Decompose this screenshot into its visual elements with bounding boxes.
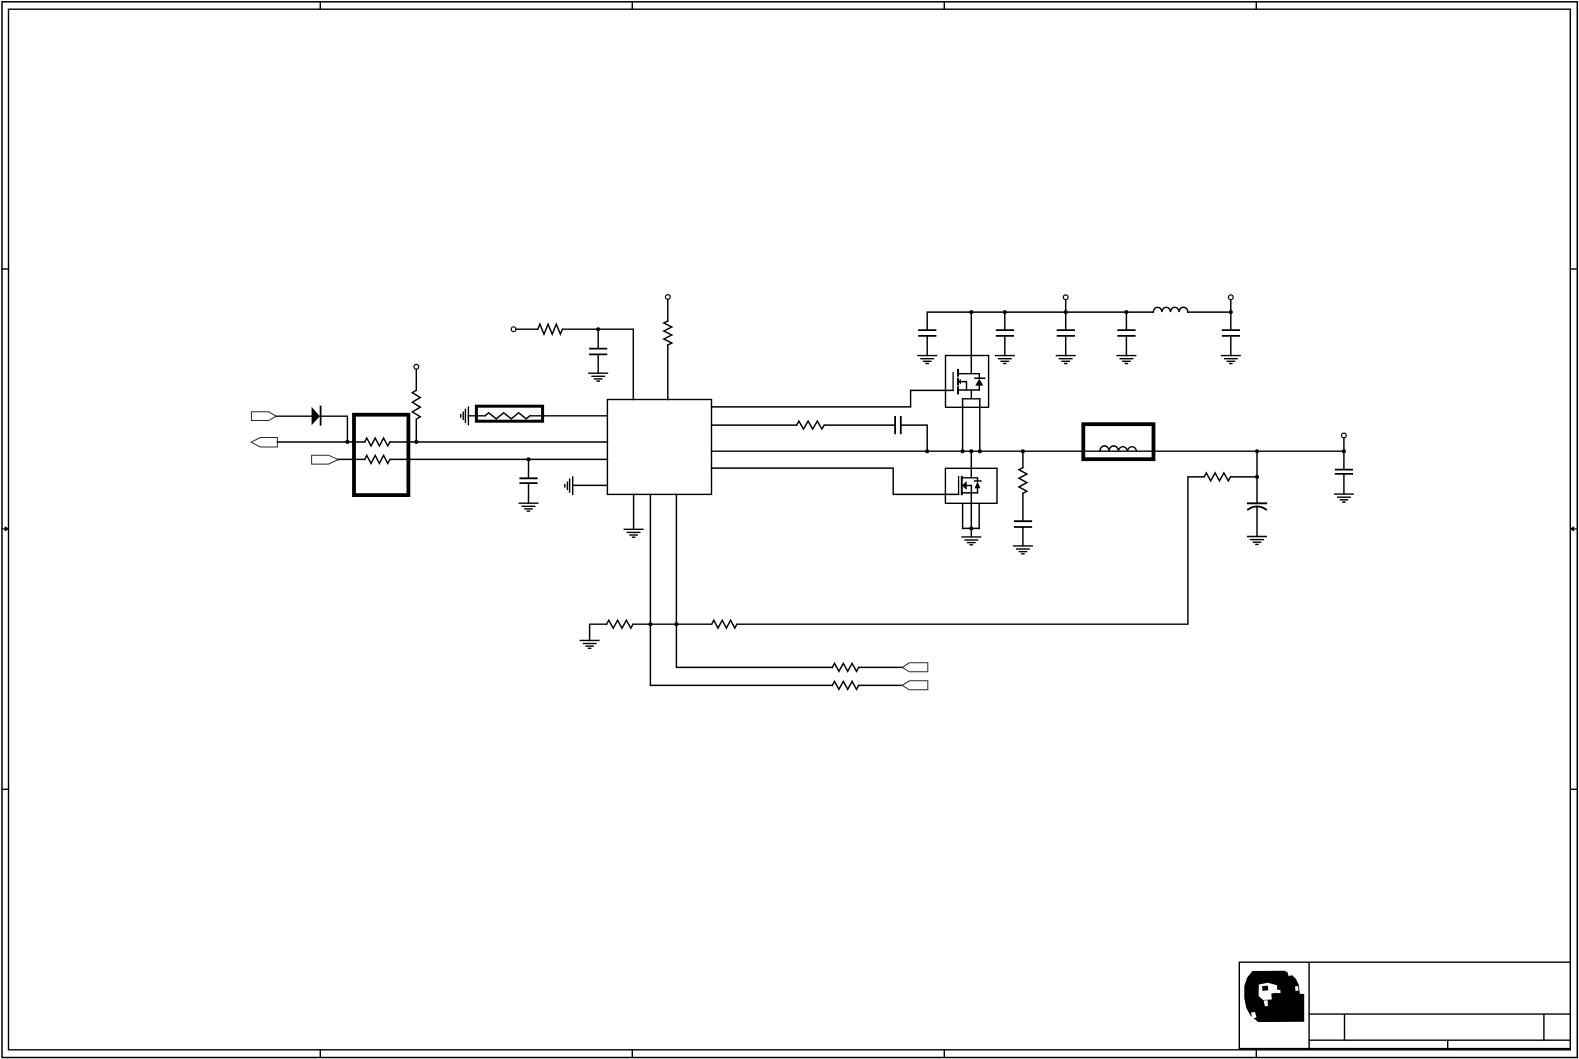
resistor R13 (divider top) xyxy=(1204,473,1230,481)
node B junction dot xyxy=(414,440,418,444)
node VOUT junction dot xyxy=(1255,449,1259,453)
wire IC pin LG to Q2 gate xyxy=(712,468,959,494)
capacitor C9 (polarized output) xyxy=(1248,503,1266,509)
junction dot output xyxy=(1342,449,1346,453)
title block outline xyxy=(1239,962,1569,1048)
node G junction dot xyxy=(1003,310,1007,314)
terminal T1 xyxy=(414,364,419,369)
wire R10 to flag J4 xyxy=(859,666,903,668)
wire R7 to C2 xyxy=(824,424,895,426)
title block logo cell divider xyxy=(1308,962,1310,1048)
ground G15 under C11 xyxy=(519,503,538,511)
wire IC pin FB down xyxy=(650,494,832,685)
wire Q2 source center xyxy=(970,493,972,529)
ground G14 xyxy=(1335,494,1354,502)
wire C11 to ground xyxy=(528,483,530,503)
wire VOUT down to divider xyxy=(1256,451,1258,477)
ground G12 xyxy=(1014,546,1033,554)
junction dot Q1 source pin 2 xyxy=(978,449,982,453)
wire G3 to IC xyxy=(573,484,608,486)
wire IC pin COMP down xyxy=(676,494,832,667)
ground G3 (rotated, at IC left) xyxy=(565,477,573,494)
wire Q1 source pin 2 to SW xyxy=(979,399,981,451)
ground G11 under Q2 xyxy=(962,537,981,545)
wire VIN rail xyxy=(927,312,1153,330)
border tick top x=320 xyxy=(319,2,321,9)
module box FB1 (thick outline) xyxy=(354,415,408,495)
wire C7 to ground xyxy=(1230,336,1232,356)
wire G2 to module R6 xyxy=(468,415,485,417)
TITLE BLOCK xyxy=(1239,962,1570,1048)
resistor R3 (vertical pull-up) xyxy=(412,390,420,419)
resistor R4 xyxy=(538,324,563,334)
node F junction dot (Q1 drain) xyxy=(969,310,973,314)
wire T5 stub xyxy=(1230,300,1232,330)
ground G5 stub xyxy=(590,624,607,640)
resistor R6 (inside module) xyxy=(485,413,530,419)
diode D1 xyxy=(312,407,321,426)
wire J3 to module box xyxy=(338,458,365,460)
wire L1 to T5 xyxy=(1188,311,1231,313)
IC U1 xyxy=(607,400,711,495)
wire C10 to ground xyxy=(1343,474,1345,494)
border tick bottom x=944 xyxy=(943,1050,945,1058)
wire C9 to ground xyxy=(1256,506,1258,536)
title block bottom cell divider x=1448 xyxy=(1447,1040,1449,1048)
wire T2 to R4 xyxy=(516,328,538,330)
node J junction dot xyxy=(1229,310,1233,314)
wire C3 to ground xyxy=(926,336,928,356)
border tick top x=944 xyxy=(943,2,945,9)
resistor R7 (boost) xyxy=(797,421,825,429)
terminal T2 xyxy=(511,327,516,332)
resistor R9 (FB upper) xyxy=(712,620,737,628)
wire T1 to R3 xyxy=(415,369,417,390)
capacitor C6 stub xyxy=(1125,312,1127,330)
resistor R11 (sense row 2) xyxy=(832,681,858,689)
SW node junction dot xyxy=(925,449,929,453)
border tick bottom x=632 xyxy=(631,1050,633,1058)
wire C6 to ground xyxy=(1125,336,1127,356)
ground G13 xyxy=(1248,537,1267,545)
INPUT RAIL (top right) xyxy=(918,295,1240,364)
inductor L2 (output) xyxy=(1100,446,1137,451)
border tick bottom x=1256 xyxy=(1255,1050,1257,1058)
capacitor C4 xyxy=(997,330,1013,336)
wire divider to C9 xyxy=(1256,477,1258,503)
company logo xyxy=(1244,971,1304,1022)
resistor R12 (snubber, vertical) xyxy=(1019,468,1027,494)
terminal T6 (VOUT) xyxy=(1342,433,1347,438)
wire C2 to SW node xyxy=(901,425,927,451)
ground G9 xyxy=(1117,356,1136,364)
module box L2 (thick outline) xyxy=(1083,424,1153,459)
junction dot Q2 source xyxy=(969,526,973,530)
connector flag J3 (pointing right) xyxy=(312,455,339,464)
capacitor C1 stub xyxy=(597,329,599,348)
wire SW rail xyxy=(712,450,1344,452)
capacitor C2 (boost, series) xyxy=(895,417,901,433)
resistor R1 (inside module, upper) xyxy=(365,438,390,446)
POWER STAGE MOSFETS xyxy=(945,312,997,545)
wire R2 to IC xyxy=(390,458,607,460)
ground G7 xyxy=(996,356,1015,364)
node D junction dot xyxy=(648,622,652,626)
LEFT INPUT SECTION xyxy=(251,364,607,495)
border center arrow left xyxy=(2,526,10,531)
capacitor C8 (snubber) xyxy=(1015,521,1031,527)
wire J2 to module box xyxy=(277,441,364,443)
wire output to C10 xyxy=(1343,451,1345,469)
capacitor C1 xyxy=(590,349,606,355)
wire IC pin BST xyxy=(712,424,797,426)
wire C8 to ground xyxy=(1022,527,1024,546)
connector flag J1 (input, pointing right) xyxy=(251,412,276,421)
wire Q1 source pin 1 to SW xyxy=(962,399,964,451)
border tick left y=269 xyxy=(2,268,9,270)
title block bottom line xyxy=(1239,1048,1570,1050)
terminal T4 xyxy=(1063,295,1068,300)
ground under C1 xyxy=(589,373,608,381)
border tick right y=789 xyxy=(1570,788,1577,790)
wire SW to Q2 drain xyxy=(970,451,972,478)
title block cell divider x=1544 xyxy=(1543,1014,1545,1040)
wire D1 to node A xyxy=(321,416,348,442)
terminal T3 xyxy=(665,295,670,300)
transistor Q2 (low side N-MOSFET) xyxy=(945,468,997,503)
GATE DRIVE AND SW SECTION xyxy=(712,390,1344,494)
capacitor C7 xyxy=(1223,330,1239,336)
wire R5 to IC top xyxy=(667,345,669,400)
border tick top x=1256 xyxy=(1255,2,1257,9)
capacitor C4 stub xyxy=(1004,312,1006,330)
title block row line y=1040 xyxy=(1309,1039,1570,1041)
border tick right y=269 xyxy=(1570,268,1577,270)
title block cell divider x=1344 xyxy=(1344,1014,1346,1040)
resistor R2 (inside module, lower) xyxy=(365,455,390,463)
resistor R5 (vertical) xyxy=(664,321,672,345)
ground G2 (rotated, left of module R6) xyxy=(461,407,469,424)
wire VIN rail to Q1 drain xyxy=(970,312,972,374)
junction dot divider xyxy=(1255,475,1259,479)
inductor L1 (input filter) xyxy=(1153,307,1188,312)
capacitor C6 xyxy=(1118,330,1134,336)
wire R13 to VOUT node xyxy=(1231,476,1257,478)
capacitor C5 xyxy=(1058,330,1074,336)
wire R1 to IC xyxy=(390,441,607,443)
IC AND LEFT PINS xyxy=(461,400,712,538)
wire R12 to C8 xyxy=(1022,493,1024,521)
ENABLE RC SECTION (top left) xyxy=(511,295,672,400)
wire SW to R12 xyxy=(1022,451,1024,467)
connector flag J2 (pointing left) xyxy=(251,438,277,448)
wire C4 to ground xyxy=(1004,336,1006,356)
transistor Q1 (high side N-MOSFET) xyxy=(946,356,989,408)
wire T4 to rail xyxy=(1065,300,1067,330)
wire C5 to ground xyxy=(1065,336,1067,356)
border tick top x=632 xyxy=(631,2,633,9)
capacitor C10 xyxy=(1336,470,1352,474)
ground G8 xyxy=(1056,356,1075,364)
wire IC pin HG to Q1 gate xyxy=(712,390,954,407)
FEEDBACK NETWORK (bottom) xyxy=(580,477,1204,690)
module box FB2 (thick outline) xyxy=(476,406,542,421)
wire Q2 source pin 1 xyxy=(962,503,964,528)
ground G5 xyxy=(580,640,599,648)
wire IC bottom pin1 to ground xyxy=(633,494,635,529)
junction dot Q1 source pin 1 xyxy=(961,449,965,453)
wire C1 to ground xyxy=(597,354,599,373)
node C junction dot xyxy=(596,327,600,331)
wire Q2 source to ground xyxy=(970,528,972,537)
ground G6 xyxy=(918,356,937,364)
resistor R8 (FB lower) xyxy=(607,620,633,628)
junction dot snubber xyxy=(1021,449,1025,453)
connector flag J4 (pointing left) xyxy=(902,663,928,672)
title block row line y=1014 xyxy=(1309,1013,1570,1015)
ground G10 xyxy=(1222,356,1241,364)
terminal T5 xyxy=(1228,295,1233,300)
resistor R10 (sense row 1) xyxy=(832,663,858,671)
wire R11 to flag J5 xyxy=(859,684,903,686)
border tick bottom x=320 xyxy=(319,1050,321,1058)
node E junction dot xyxy=(674,622,678,626)
wire R3 to node B xyxy=(415,419,417,442)
border center arrow right xyxy=(1569,526,1577,531)
capacitor C11 xyxy=(520,478,536,483)
wire Q2 source pin 2 xyxy=(978,503,980,528)
wire R6 to IC xyxy=(530,415,607,417)
wire T3 to R5 xyxy=(667,299,669,321)
node H junction dot xyxy=(1064,310,1068,314)
wire T6 to output line xyxy=(1343,438,1345,451)
wire to C11 xyxy=(528,459,530,478)
wire Q2 source bar xyxy=(963,527,980,529)
junction dot on VCC line xyxy=(527,457,531,461)
node I junction dot xyxy=(1124,310,1128,314)
wire R9 to VOUT sense xyxy=(737,477,1204,624)
connector flag J5 (pointing left) xyxy=(902,681,928,690)
border tick left y=789 xyxy=(2,788,9,790)
wire J1 to D1 xyxy=(276,415,311,417)
OUTPUT SECTION xyxy=(1083,424,1353,544)
wire R4 to IC top pin, node C xyxy=(563,329,634,399)
junction dot Q2 drain xyxy=(969,449,973,453)
ground G4 under IC xyxy=(624,529,643,537)
node A junction dot xyxy=(345,440,349,444)
capacitor C3 xyxy=(919,330,935,336)
SNUBBER xyxy=(1014,449,1033,554)
wire R8 to node D xyxy=(633,623,712,625)
